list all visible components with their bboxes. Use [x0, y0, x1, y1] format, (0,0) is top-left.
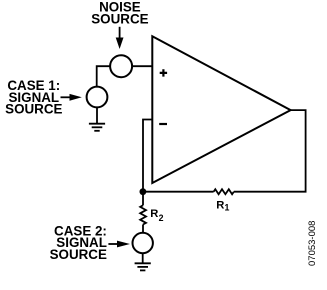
wire case2 source to ground	[142, 253, 144, 263]
wire junction to R1	[143, 191, 214, 193]
svg-text:07053-008: 07053-008	[307, 221, 318, 266]
ground case 2	[135, 263, 151, 270]
case 2 signal source circle	[133, 233, 153, 253]
wire R1 to output corner	[234, 110, 306, 192]
label R1	[216, 200, 229, 213]
plus sign at noninverting input	[160, 69, 167, 76]
noise source circle	[110, 55, 132, 77]
ground case 1	[89, 124, 105, 131]
arrow from CASE 1 label to case1 source	[61, 94, 82, 101]
junction node dot	[140, 188, 147, 195]
label CASE 1: SIGNAL SOURCE	[5, 78, 62, 117]
svg-text:R: R	[216, 200, 224, 212]
svg-text:2: 2	[159, 213, 164, 223]
resistor R1	[214, 189, 234, 194]
label CASE 2: SIGNAL SOURCE	[50, 223, 107, 262]
wire junction to R2	[142, 192, 144, 206]
svg-text:R: R	[150, 208, 158, 220]
svg-text:SOURCE: SOURCE	[50, 247, 107, 262]
wire noise source to +input	[133, 65, 153, 67]
wire inverting input to junction	[143, 120, 152, 192]
op-amp U1	[152, 36, 290, 183]
arrow from NOISE SOURCE label to noise source	[116, 27, 124, 49]
label R2	[150, 208, 163, 223]
wire R2 to case2 source	[142, 225, 144, 233]
label NOISE SOURCE	[91, 0, 148, 27]
minus sign at inverting input	[159, 123, 167, 125]
case 1 signal source circle	[87, 87, 108, 108]
svg-text:1: 1	[225, 203, 230, 213]
svg-text:SOURCE: SOURCE	[91, 12, 148, 27]
wire noise source to case1 source	[97, 66, 111, 86]
arrow from CASE 2 label to case2 source	[108, 241, 130, 248]
resistor R2	[140, 205, 146, 224]
wire case1 source to ground	[96, 108, 98, 124]
svg-text:SOURCE: SOURCE	[5, 102, 62, 117]
